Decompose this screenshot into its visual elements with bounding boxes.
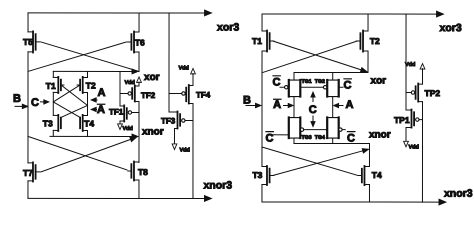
svg-text:Vdd: Vdd (408, 145, 418, 151)
svg-text:xnor: xnor (142, 126, 164, 137)
svg-text:TG1: TG1 (302, 79, 312, 85)
svg-text:A: A (98, 87, 106, 99)
svg-text:B: B (13, 93, 21, 105)
svg-text:T4: T4 (372, 170, 382, 180)
svg-text:Vdd: Vdd (405, 62, 415, 68)
svg-text:Vdd: Vdd (125, 80, 135, 86)
svg-text:A: A (273, 99, 281, 111)
svg-text:TP1: TP1 (394, 115, 410, 125)
svg-text:Vdd: Vdd (122, 126, 132, 132)
svg-text:TG2: TG2 (315, 79, 325, 85)
svg-text:xor: xor (371, 76, 387, 87)
svg-text:C: C (265, 133, 273, 145)
svg-text:TG3: TG3 (301, 135, 311, 141)
svg-text:Vdd: Vdd (179, 147, 189, 153)
svg-text:xor3: xor3 (440, 22, 462, 34)
svg-text:xor: xor (144, 72, 160, 83)
svg-text:xor3: xor3 (217, 21, 239, 33)
svg-text:C: C (309, 104, 317, 116)
svg-text:TP2: TP2 (425, 88, 441, 98)
svg-text:B: B (243, 95, 251, 107)
svg-text:xnor: xnor (369, 130, 391, 141)
svg-text:Vdd: Vdd (179, 65, 189, 71)
svg-text:C: C (347, 133, 355, 145)
svg-text:TF2: TF2 (141, 91, 156, 100)
svg-text:TF3: TF3 (161, 116, 176, 125)
svg-text:C: C (344, 80, 352, 92)
svg-text:C: C (273, 77, 281, 89)
svg-text:TF1: TF1 (109, 107, 124, 116)
svg-text:TF4: TF4 (196, 90, 211, 99)
svg-text:T1: T1 (252, 36, 262, 46)
svg-text:xnor3: xnor3 (444, 188, 473, 200)
svg-text:xnor3: xnor3 (203, 179, 232, 191)
svg-text:T6: T6 (135, 37, 145, 47)
svg-text:T2: T2 (370, 36, 380, 46)
svg-text:T2: T2 (86, 80, 96, 90)
svg-text:T4: T4 (84, 118, 94, 128)
svg-text:T3: T3 (43, 118, 53, 128)
svg-text:A: A (97, 104, 105, 116)
svg-text:TG4: TG4 (315, 135, 325, 141)
svg-text:A: A (345, 99, 353, 111)
svg-text:C: C (31, 97, 39, 109)
svg-text:T8: T8 (138, 167, 148, 177)
svg-text:T1: T1 (46, 81, 56, 91)
svg-text:T7: T7 (23, 168, 33, 178)
svg-text:T5: T5 (23, 37, 33, 47)
svg-text:T3: T3 (252, 170, 262, 180)
